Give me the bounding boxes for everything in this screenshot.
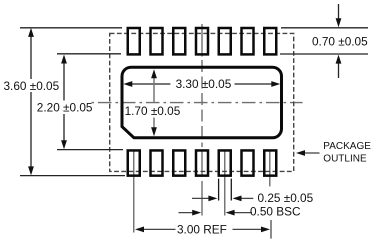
svg-text:0.25 ±0.05: 0.25 ±0.05: [258, 191, 314, 205]
svg-text:OUTLINE: OUTLINE: [323, 154, 367, 165]
svg-text:2.20 ±0.05: 2.20 ±0.05: [37, 101, 93, 115]
svg-text:0.70 ±0.05: 0.70 ±0.05: [312, 34, 368, 48]
svg-text:0.50 BSC: 0.50 BSC: [250, 205, 301, 219]
svg-text:PACKAGE: PACKAGE: [323, 141, 371, 152]
svg-text:3.00 REF: 3.00 REF: [177, 223, 227, 237]
svg-text:3.30 ±0.05: 3.30 ±0.05: [176, 77, 232, 91]
svg-text:1.70 ±0.05: 1.70 ±0.05: [125, 104, 181, 118]
svg-text:3.60 ±0.05: 3.60 ±0.05: [4, 79, 60, 93]
